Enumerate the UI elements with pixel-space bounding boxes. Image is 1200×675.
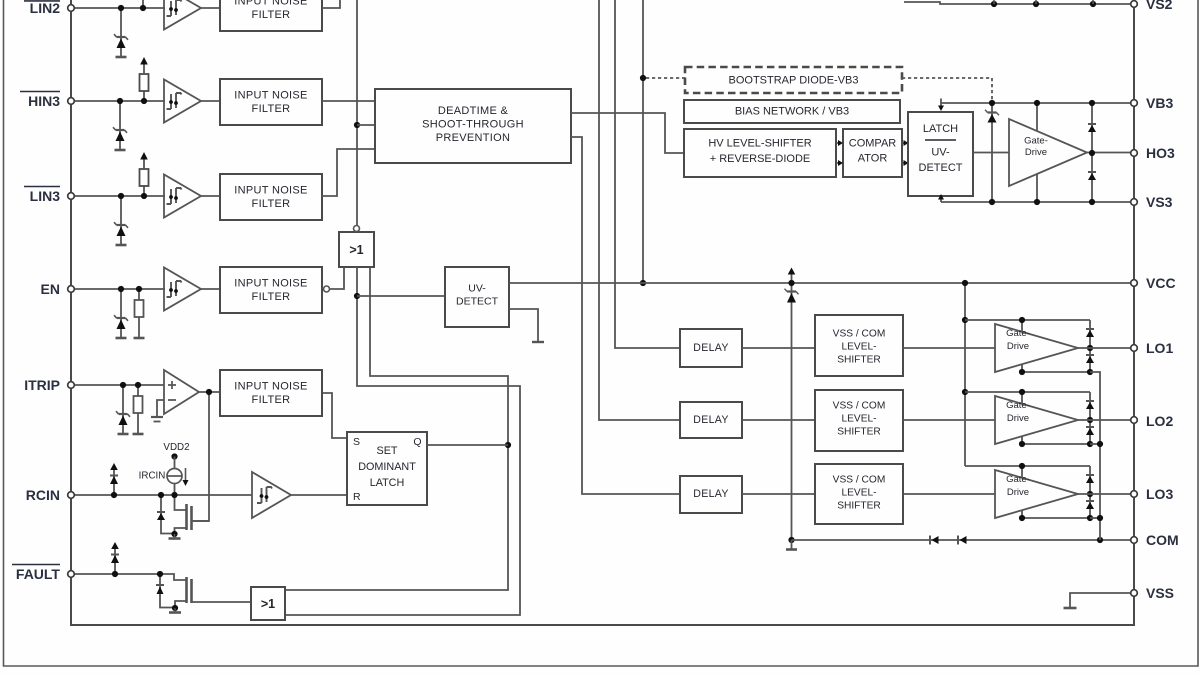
svg-text:DETECT: DETECT: [919, 162, 963, 174]
svg-text:Gate-: Gate-: [1006, 474, 1030, 485]
svg-text:FILTER: FILTER: [252, 291, 291, 303]
svg-text:SHOOT-THROUGH: SHOOT-THROUGH: [422, 119, 524, 131]
svg-text:DELAY: DELAY: [693, 414, 728, 426]
svg-text:Drive: Drive: [1007, 413, 1029, 424]
svg-text:ITRIP: ITRIP: [24, 377, 60, 393]
svg-text:LO1: LO1: [1146, 340, 1173, 356]
svg-text:VSS / COM: VSS / COM: [833, 401, 886, 412]
svg-text:UV-: UV-: [931, 147, 950, 159]
svg-text:HV LEVEL-SHIFTER: HV LEVEL-SHIFTER: [708, 138, 811, 150]
svg-text:EN: EN: [41, 281, 60, 297]
svg-text:LO2: LO2: [1146, 413, 1173, 429]
svg-text:UV-: UV-: [468, 283, 486, 295]
svg-text:COMPAR: COMPAR: [849, 138, 897, 150]
svg-text:VB3: VB3: [1146, 95, 1173, 111]
svg-text:Drive: Drive: [1007, 487, 1029, 498]
svg-text:Gate-: Gate-: [1006, 328, 1030, 339]
svg-text:VSS / COM: VSS / COM: [833, 329, 886, 340]
svg-text:LIN2: LIN2: [30, 0, 61, 16]
svg-text:PREVENTION: PREVENTION: [436, 132, 511, 144]
svg-text:FILTER: FILTER: [252, 198, 291, 210]
svg-text:VSS: VSS: [1146, 585, 1174, 601]
svg-text:Gate-: Gate-: [1024, 136, 1048, 147]
svg-text:Gate-: Gate-: [1006, 400, 1030, 411]
svg-text:INPUT NOISE: INPUT NOISE: [234, 90, 307, 102]
svg-text:COM: COM: [1146, 532, 1179, 548]
svg-text:Q: Q: [413, 436, 421, 448]
svg-text:DETECT: DETECT: [456, 296, 499, 308]
svg-text:LIN3: LIN3: [30, 188, 61, 204]
svg-text:VSS / COM: VSS / COM: [833, 475, 886, 486]
svg-text:VS3: VS3: [1146, 194, 1173, 210]
svg-text:>1: >1: [261, 597, 275, 611]
svg-text:LEVEL-: LEVEL-: [841, 414, 876, 425]
svg-text:ATOR: ATOR: [858, 153, 888, 165]
svg-text:VDD2: VDD2: [163, 442, 189, 453]
svg-text:DEADTIME &: DEADTIME &: [438, 105, 509, 117]
svg-text:BOOTSTRAP DIODE-VB3: BOOTSTRAP DIODE-VB3: [729, 75, 859, 87]
svg-text:INPUT NOISE: INPUT NOISE: [234, 278, 307, 290]
svg-text:LEVEL-: LEVEL-: [841, 342, 876, 353]
svg-text:SET: SET: [377, 445, 398, 457]
svg-text:FILTER: FILTER: [252, 103, 291, 115]
svg-text:SHIFTER: SHIFTER: [837, 427, 881, 438]
svg-text:Drive: Drive: [1007, 341, 1029, 352]
svg-text:VS2: VS2: [1146, 0, 1173, 12]
svg-text:SHIFTER: SHIFTER: [837, 355, 881, 366]
svg-text:INPUT NOISE: INPUT NOISE: [234, 0, 307, 8]
svg-text:FILTER: FILTER: [252, 9, 291, 21]
svg-text:S: S: [353, 436, 360, 448]
svg-text:RCIN: RCIN: [26, 487, 60, 503]
svg-text:R: R: [353, 491, 361, 503]
svg-text:Drive: Drive: [1025, 147, 1047, 158]
svg-text:DOMINANT: DOMINANT: [358, 461, 416, 473]
svg-text:HIN3: HIN3: [28, 93, 60, 109]
svg-text:FAULT: FAULT: [16, 566, 61, 582]
svg-text:LATCH: LATCH: [370, 477, 405, 489]
svg-text:>1: >1: [349, 243, 363, 257]
svg-text:LATCH: LATCH: [923, 123, 958, 135]
svg-text:VCC: VCC: [1146, 275, 1176, 291]
svg-text:+ REVERSE-DIODE: + REVERSE-DIODE: [710, 153, 811, 165]
svg-text:INPUT NOISE: INPUT NOISE: [234, 185, 307, 197]
svg-text:DELAY: DELAY: [693, 342, 728, 354]
svg-text:SHIFTER: SHIFTER: [837, 501, 881, 512]
svg-text:LO3: LO3: [1146, 486, 1173, 502]
svg-text:LEVEL-: LEVEL-: [841, 488, 876, 499]
svg-text:BIAS NETWORK / VB3: BIAS NETWORK / VB3: [735, 106, 849, 118]
svg-text:FILTER: FILTER: [252, 394, 291, 406]
svg-text:DELAY: DELAY: [693, 488, 728, 500]
svg-text:HO3: HO3: [1146, 145, 1175, 161]
svg-text:INPUT NOISE: INPUT NOISE: [234, 381, 307, 393]
svg-text:IRCIN: IRCIN: [139, 471, 166, 482]
